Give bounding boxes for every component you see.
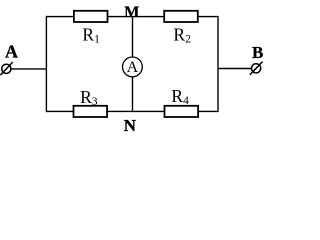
wire bottom (left rail to right rail, through R3, N, R4) (46, 110, 218, 112)
wire left rail (45, 16, 47, 112)
svg-text:B: B (252, 43, 263, 62)
terminal symbol at node B (250, 62, 263, 75)
wire right rail (217, 16, 219, 112)
svg-text:R4: R4 (171, 86, 189, 107)
resistor R1 (74, 11, 108, 22)
svg-text:A: A (5, 42, 18, 62)
svg-text:M: M (124, 4, 139, 21)
svg-text:R1: R1 (82, 24, 100, 45)
wire terminal A lead (11, 68, 47, 70)
wire top (left rail to right rail, through R1, M, R2) (46, 16, 218, 18)
ammeter A (122, 57, 142, 77)
wire terminal B lead (218, 68, 252, 70)
svg-text:N: N (124, 116, 137, 135)
svg-text:A: A (127, 59, 139, 76)
svg-text:R2: R2 (173, 24, 191, 45)
resistor R2 (164, 11, 198, 22)
svg-text:R3: R3 (80, 87, 98, 108)
resistor R3 (74, 106, 108, 117)
wire center M to N through ammeter (132, 17, 134, 112)
resistor R4 (165, 106, 199, 117)
terminal symbol at node A (0, 62, 12, 75)
